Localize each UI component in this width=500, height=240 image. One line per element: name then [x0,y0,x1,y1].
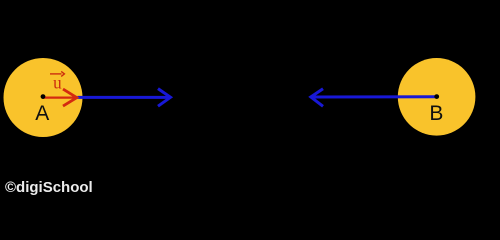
circle A (yellow disc left) [4,58,83,137]
wire: blue velocity arrow from B shaft [312,95,438,98]
wire: blue velocity arrow from A shaft [78,96,171,99]
watermark copyright digiSchool [5,179,93,196]
svg-text:A: A [35,102,49,125]
svg-text:u: u [53,72,62,93]
blue arrowhead left-pointing [311,89,323,107]
red unit vector u shaft [43,96,76,98]
node A point [41,94,46,99]
node B point [434,94,439,99]
svg-text:B: B [429,102,443,125]
vector hat arrow over u [50,73,62,75]
circle B (yellow disc right) [398,58,476,136]
red arrowhead [63,89,77,106]
blue arrowhead right-pointing [158,89,171,107]
